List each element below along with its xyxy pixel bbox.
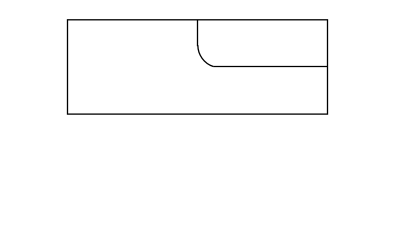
wire: fillet arc (r~22.5) joining vertical to horizontal bbox=[198, 45, 213, 66]
outer rectangle outline bbox=[68, 20, 328, 114]
wire: inner horizontal segment to right edge bbox=[213, 66, 327, 68]
wire: inner vertical segment from top edge bbox=[197, 20, 199, 46]
